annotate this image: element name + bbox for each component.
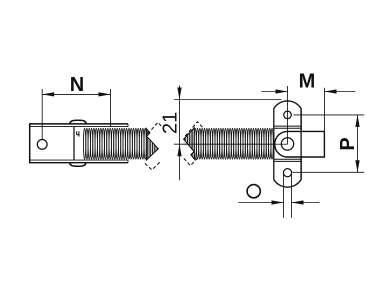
bracket top hole xyxy=(284,111,292,119)
left coil spring xyxy=(83,128,146,159)
left rod break point xyxy=(146,129,158,160)
bracket bottom hole xyxy=(283,169,291,177)
dimension O arrow left xyxy=(272,200,284,204)
body hole xyxy=(37,140,47,150)
crimp tab bottom xyxy=(70,163,86,166)
label O xyxy=(247,185,260,198)
left body inner top line xyxy=(30,126,128,128)
barrel hole xyxy=(281,138,293,150)
bracket vertical centerline xyxy=(287,86,289,144)
dimension P arrow bottom xyxy=(355,160,359,172)
right break phantom bottom chevron xyxy=(184,157,199,166)
dimension N line xyxy=(42,93,110,95)
left body divider xyxy=(73,127,75,161)
axis centerline over bracket xyxy=(273,143,288,145)
svg-text:21: 21 xyxy=(160,112,182,134)
dimension P arrow top xyxy=(355,115,359,127)
svg-text:N: N xyxy=(70,74,84,96)
dimension N witness line left xyxy=(41,89,43,139)
dimension N witness line right xyxy=(110,89,112,126)
left body outer bottom line xyxy=(30,162,128,164)
dimension O left line xyxy=(238,202,283,204)
bracket band line top 2 xyxy=(274,127,301,129)
dimension P bottom witness xyxy=(292,171,364,173)
dimension P line xyxy=(357,115,359,172)
bracket right edge over block xyxy=(300,109,302,180)
axis centerline over right break xyxy=(184,143,196,145)
dimension M right line xyxy=(325,91,356,93)
dimension P top witness xyxy=(293,114,364,116)
dimension 21 line xyxy=(179,86,181,181)
dimension O arrow right xyxy=(292,200,304,204)
left break phantom top chevron xyxy=(148,122,165,134)
svg-text:P: P xyxy=(337,137,359,150)
dimension M left line xyxy=(261,91,287,93)
dimension M arrow left xyxy=(276,89,288,93)
dimension M arrow right xyxy=(325,89,337,93)
dimension M right witness xyxy=(324,88,326,131)
bracket band line bottom 2 xyxy=(274,160,301,162)
dimension N arrow left xyxy=(42,92,54,96)
bracket plate xyxy=(274,101,301,187)
dimension 21 arrow bottom xyxy=(177,144,181,156)
dimension N arrow right xyxy=(99,92,111,96)
bracket band line top 1 xyxy=(274,125,301,127)
left body outer top line xyxy=(30,123,128,125)
right rod break point xyxy=(184,128,195,159)
left body right end cap top xyxy=(127,124,129,127)
right coil spring xyxy=(194,128,273,159)
left body left edge xyxy=(29,123,31,163)
svg-text:M: M xyxy=(299,70,316,92)
crimp tab top xyxy=(70,120,87,123)
bracket band line bottom 1 xyxy=(274,158,301,160)
dimension O witness left xyxy=(283,173,285,218)
barrel block xyxy=(275,131,325,157)
dimension 21 top witness line xyxy=(174,99,282,101)
dimension 21 arrow top xyxy=(177,88,181,100)
left break phantom bottom chevron xyxy=(145,161,161,170)
dimension O witness right xyxy=(291,173,293,218)
left body right end cap bottom xyxy=(127,160,129,163)
left body inner bottom line xyxy=(30,159,128,161)
dimension 21 axis centerline xyxy=(174,143,288,145)
hook glyph xyxy=(76,131,78,134)
right break phantom top chevron xyxy=(185,122,203,136)
dimension O right line xyxy=(292,202,320,204)
